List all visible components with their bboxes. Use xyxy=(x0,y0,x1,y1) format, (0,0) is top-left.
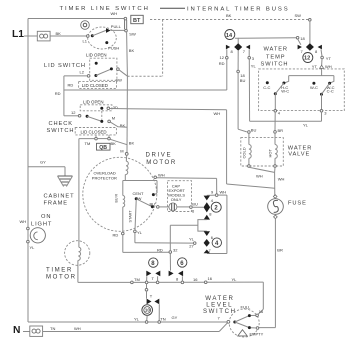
svg-text:ON: ON xyxy=(41,214,51,220)
timer cam contact 2 xyxy=(204,195,222,220)
noise suppressor FL2 xyxy=(30,326,43,336)
svg-text:12: 12 xyxy=(304,56,310,62)
svg-text:WH: WH xyxy=(158,172,165,177)
svg-text:CABINET: CABINET xyxy=(44,194,75,200)
wire internal timer buss xyxy=(150,13,311,21)
svg-text:27: 27 xyxy=(189,243,194,248)
svg-text:YT: YT xyxy=(326,56,332,61)
svg-text:12: 12 xyxy=(71,110,76,115)
svg-text:YL: YL xyxy=(251,64,257,69)
wire TM row to water level switch xyxy=(131,276,264,314)
timer cam contacts 8 and 6 xyxy=(146,253,187,281)
noise suppressor FL1 xyxy=(37,31,50,41)
wire RD rail from lid switch xyxy=(55,76,88,116)
solenoid COLD xyxy=(242,133,252,167)
svg-text:BT: BT xyxy=(133,18,141,24)
wire YL motor to contact 4 xyxy=(135,233,194,243)
svg-text:16: 16 xyxy=(208,276,213,281)
svg-text:YL: YL xyxy=(232,277,238,282)
svg-text:SWITCH: SWITCH xyxy=(203,308,237,315)
svg-text:INTERNAL TIMER BUSS: INTERNAL TIMER BUSS xyxy=(187,7,290,13)
svg-text:YL: YL xyxy=(30,245,36,250)
svg-text:C-C: C-C xyxy=(263,85,270,90)
svg-text:BK: BK xyxy=(129,140,135,145)
svg-text:TIMER LINE SWITCH: TIMER LINE SWITCH xyxy=(60,6,150,12)
svg-text:16: 16 xyxy=(193,277,198,282)
svg-text:YL: YL xyxy=(189,236,195,241)
svg-text:TN: TN xyxy=(160,316,165,321)
svg-text:BK: BK xyxy=(56,31,62,36)
svg-text:BU: BU xyxy=(192,201,198,206)
wire RD from timer 14 left (long horizontal) xyxy=(64,89,227,91)
wire BK to timer line switch xyxy=(50,31,87,36)
svg-text:PROTECTOR: PROTECTOR xyxy=(92,176,117,181)
timer motor xyxy=(46,139,131,283)
svg-text:CHECK: CHECK xyxy=(49,121,73,127)
svg-text:BU: BU xyxy=(150,201,156,206)
fuse xyxy=(268,195,307,219)
svg-text:16: 16 xyxy=(259,309,264,314)
wire top edge to WH terminal xyxy=(28,18,125,20)
svg-text:WH: WH xyxy=(74,326,81,331)
svg-text:WH: WH xyxy=(111,11,118,16)
svg-text:GY: GY xyxy=(172,315,178,320)
svg-text:BK: BK xyxy=(129,48,135,53)
svg-text:M: M xyxy=(112,115,115,120)
svg-text:L1: L1 xyxy=(12,29,24,40)
timer line switch xyxy=(60,6,150,51)
svg-text:SW: SW xyxy=(129,31,136,36)
svg-text:PUSH: PUSH xyxy=(108,46,119,51)
svg-text:YT: YT xyxy=(312,64,318,69)
timer cam contact 12 xyxy=(298,21,332,69)
svg-text:PULL: PULL xyxy=(111,24,122,29)
svg-text:RD: RD xyxy=(157,247,163,252)
svg-text:EMPTY: EMPTY xyxy=(250,332,264,337)
svg-text:FRAME: FRAME xyxy=(44,201,68,207)
svg-text:WH: WH xyxy=(220,189,227,194)
svg-text:RD: RD xyxy=(68,83,74,88)
boxed label BT xyxy=(131,15,143,24)
wire RD motor to 2/4 junction xyxy=(123,225,178,253)
svg-text:MOTOR: MOTOR xyxy=(46,273,77,280)
lid switch xyxy=(44,53,127,89)
motor RD terminal xyxy=(113,232,125,237)
svg-text:BU R: BU R xyxy=(115,194,119,203)
svg-text:LID SWITCH: LID SWITCH xyxy=(44,63,86,69)
svg-text:TEMP: TEMP xyxy=(266,54,285,60)
wire BR fuse to empty contact xyxy=(259,218,283,327)
drive motor xyxy=(83,151,177,231)
svg-text:14: 14 xyxy=(226,33,233,39)
svg-text:BK: BK xyxy=(111,141,117,146)
wire BR from temp switch 4 to hot valve xyxy=(274,112,283,133)
svg-text:FUSE: FUSE xyxy=(288,201,307,207)
svg-text:RD: RD xyxy=(219,61,225,66)
capacitor (export models) xyxy=(159,181,203,214)
svg-text:TM: TM xyxy=(85,141,91,146)
overload protector xyxy=(92,155,129,180)
wire N entry xyxy=(23,331,30,333)
svg-text:WH: WH xyxy=(325,64,332,69)
wire BK down from SW xyxy=(127,32,135,76)
wire left rail (WH) xyxy=(27,19,29,323)
wire WH rail right of contacts xyxy=(207,195,227,253)
solenoid HOT xyxy=(268,133,278,167)
svg-text:LID CLOSED: LID CLOSED xyxy=(81,130,107,135)
wire WH from check switch lid open xyxy=(110,109,275,189)
svg-text:L1: L1 xyxy=(83,39,88,44)
svg-text:10: 10 xyxy=(145,308,150,313)
svg-text:C-C: C-C xyxy=(327,88,334,93)
check switch xyxy=(47,99,128,146)
svg-text:VALVE: VALVE xyxy=(288,152,310,158)
timer cam contact 4 xyxy=(189,231,222,253)
timer cam contact 10 xyxy=(142,284,159,321)
wire BU from 14 to cold valve xyxy=(238,73,256,134)
title INTERNAL TIMER BUSS xyxy=(160,7,290,13)
wire jog contact 2 to 4 xyxy=(170,220,207,232)
timer cam contact 14 xyxy=(219,30,257,84)
svg-text:M: M xyxy=(120,148,123,153)
cabinet frame ground xyxy=(28,160,74,207)
motor run winding BU xyxy=(115,181,125,233)
svg-text:L2: L2 xyxy=(80,70,85,75)
svg-text:YL: YL xyxy=(137,230,143,235)
svg-text:BR: BR xyxy=(277,248,283,253)
svg-text:COLD: COLD xyxy=(242,147,247,158)
wire N to water level switch xyxy=(43,323,228,332)
svg-text:FULL: FULL xyxy=(241,304,252,309)
svg-text:MOTOR: MOTOR xyxy=(146,159,177,166)
svg-text:SW: SW xyxy=(295,13,302,18)
svg-text:LID OPEN: LID OPEN xyxy=(83,99,104,104)
svg-text:LID CLOSED: LID CLOSED xyxy=(82,83,108,88)
water valve xyxy=(241,138,312,166)
svg-text:BU: BU xyxy=(251,127,257,132)
svg-text:TN: TN xyxy=(50,326,55,331)
boxed label QB xyxy=(97,143,111,151)
motor centrifugal switch xyxy=(133,181,160,209)
motor start winding xyxy=(129,200,143,235)
svg-text:BU: BU xyxy=(240,78,246,83)
svg-text:WH: WH xyxy=(278,177,285,182)
svg-text:WH: WH xyxy=(256,174,263,179)
svg-text:ONLY: ONLY xyxy=(171,197,182,202)
wire L1 entry xyxy=(24,35,37,37)
wire valve common WH xyxy=(249,167,285,196)
motor internal top wire xyxy=(123,180,157,182)
svg-text:LIGHT: LIGHT xyxy=(31,222,52,228)
svg-text:W-C: W-C xyxy=(281,88,289,93)
svg-text:32: 32 xyxy=(173,248,178,253)
water level switch xyxy=(203,295,264,337)
wire 14 to 18 terminal of contact 12 xyxy=(238,36,305,41)
wire buss riser from lid switch junction xyxy=(127,20,162,77)
svg-text:12: 12 xyxy=(220,55,225,60)
svg-text:BR: BR xyxy=(278,128,284,133)
svg-text:RD: RD xyxy=(55,91,61,96)
svg-text:SWITCH: SWITCH xyxy=(261,62,289,68)
svg-text:W-C: W-C xyxy=(310,85,318,90)
svg-text:SWITCH: SWITCH xyxy=(47,128,75,134)
svg-text:TM: TM xyxy=(134,277,140,282)
svg-text:N: N xyxy=(13,325,20,336)
svg-text:BK: BK xyxy=(226,13,232,18)
svg-text:START: START xyxy=(129,210,133,223)
svg-text:WATER: WATER xyxy=(264,46,288,52)
on light xyxy=(20,214,53,250)
svg-text:RD: RD xyxy=(113,233,119,238)
motor WH terminal on case xyxy=(154,172,165,178)
svg-text:WH: WH xyxy=(214,111,221,116)
svg-text:YL: YL xyxy=(303,122,309,127)
wire BK to drive motor M xyxy=(120,76,134,153)
svg-text:WH: WH xyxy=(20,219,27,224)
wire RD from 14 down to long RD xyxy=(226,59,228,90)
wire WH motor to contact 2 xyxy=(157,178,227,197)
svg-text:DRIVE: DRIVE xyxy=(146,151,173,158)
wire YL from 14 to temp switch 3 xyxy=(249,59,321,127)
svg-text:GY: GY xyxy=(40,160,46,165)
svg-text:18: 18 xyxy=(300,36,305,41)
water temp switch xyxy=(259,46,345,115)
wire bottom rail xyxy=(28,315,227,324)
svg-text:LID OPEN: LID OPEN xyxy=(86,53,107,58)
svg-text:QB: QB xyxy=(99,145,107,151)
svg-text:HOT: HOT xyxy=(268,149,273,158)
svg-text:YL: YL xyxy=(134,317,140,322)
